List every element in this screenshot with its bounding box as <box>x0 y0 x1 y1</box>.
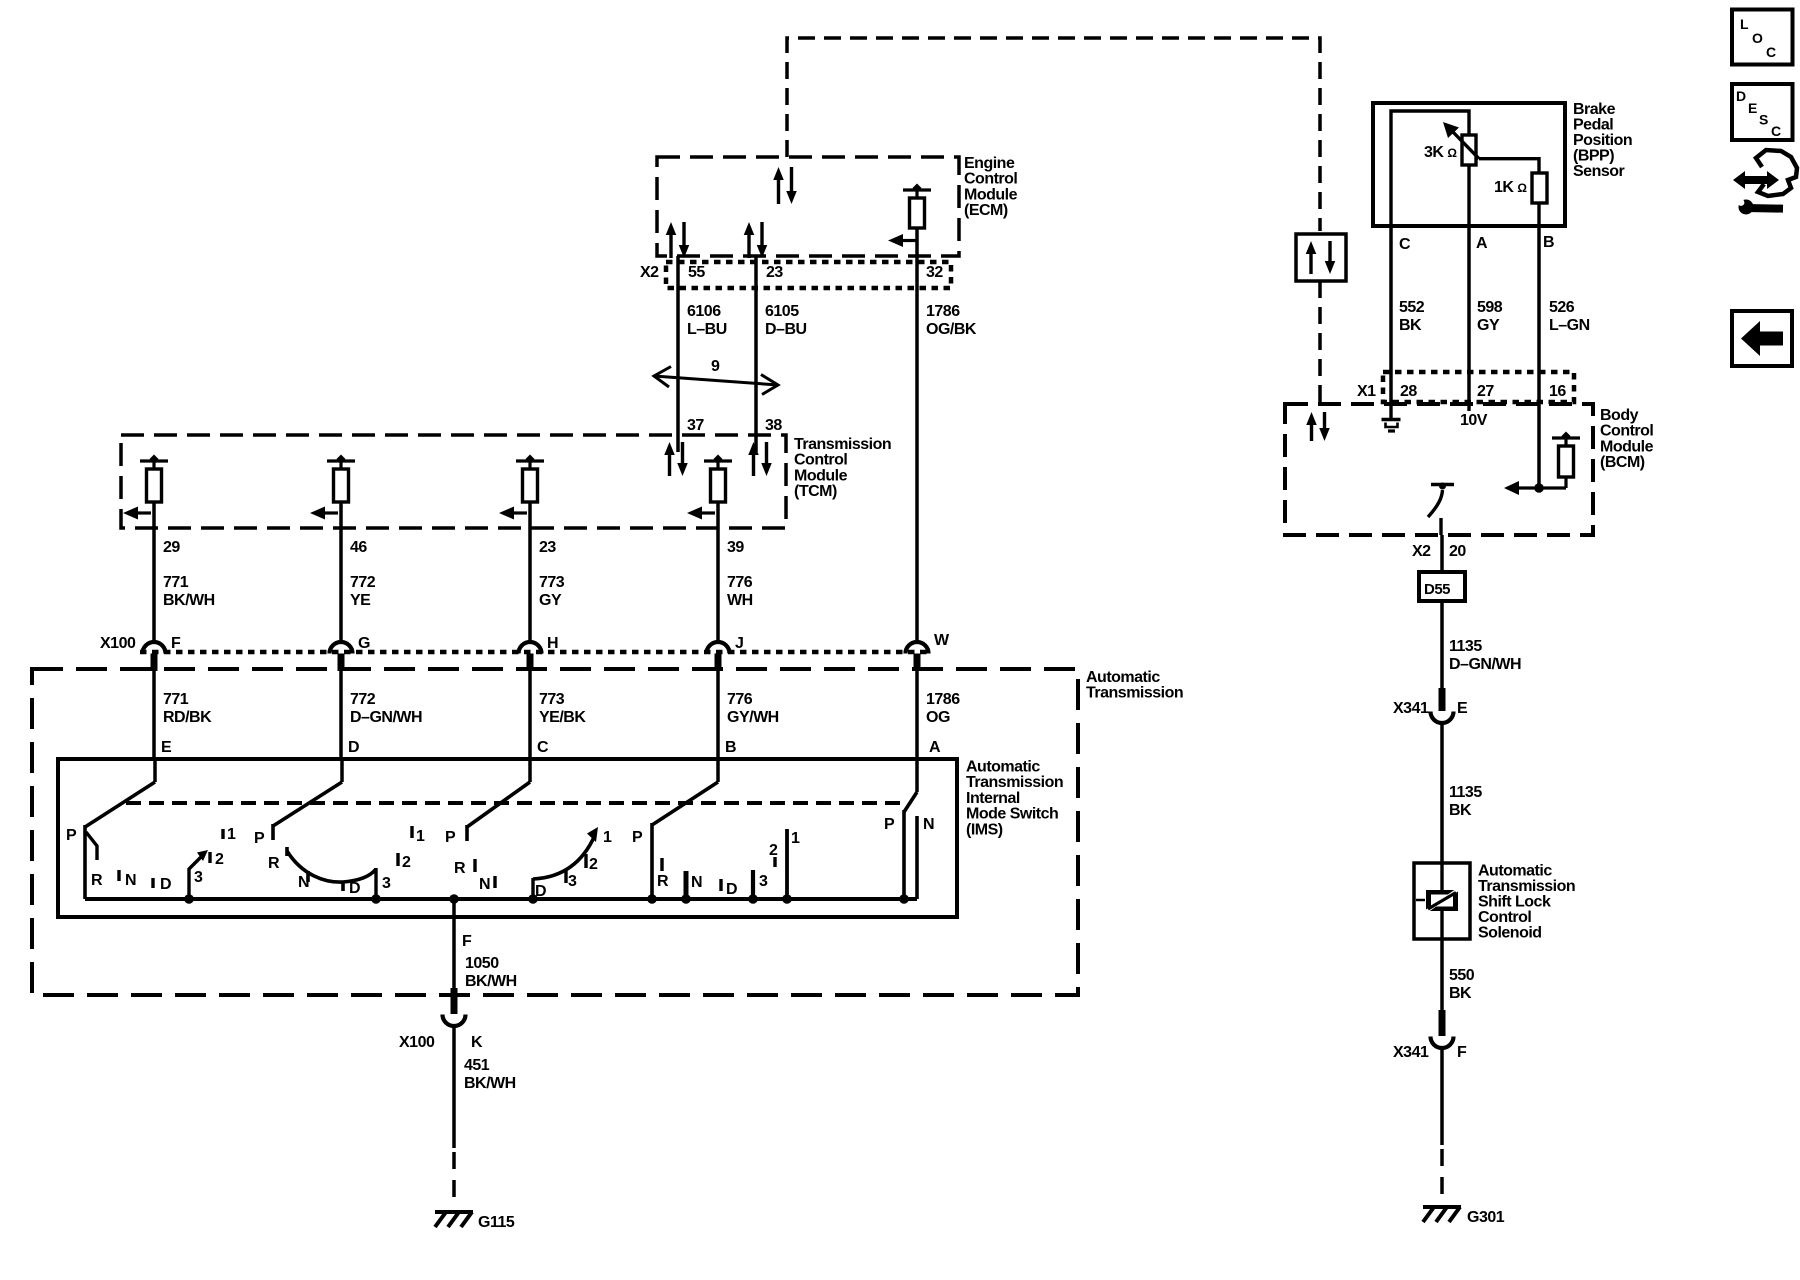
svg-text:C: C <box>1766 44 1776 60</box>
icon DESC box <box>1732 84 1793 140</box>
svg-text:X100: X100 <box>100 635 136 652</box>
junction dot at 904 <box>899 894 909 904</box>
svg-text:451: 451 <box>464 1057 490 1074</box>
wire 38 stub inside TCM <box>754 436 758 452</box>
junction dot at 787 <box>782 894 792 904</box>
svg-text:N: N <box>298 874 309 891</box>
IMS bank C wiper arc to 1 <box>531 878 534 899</box>
svg-text:(TCM): (TCM) <box>794 483 837 500</box>
svg-text:S: S <box>1759 112 1768 128</box>
arrow (signal direction) in ECM <box>888 234 903 247</box>
switch inside BCM <box>1431 483 1454 486</box>
svg-text:1: 1 <box>227 826 236 843</box>
wire circuit 6105 (pin 23 to TCM 38) <box>754 256 758 436</box>
svg-text:3: 3 <box>759 873 768 890</box>
connector X2 of ECM <box>666 262 951 288</box>
ground G115 <box>435 1210 473 1214</box>
svg-text:Internal: Internal <box>966 790 1020 807</box>
svg-text:3K Ω: 3K Ω <box>1424 144 1457 161</box>
svg-text:(BCM): (BCM) <box>1600 454 1645 471</box>
arrow and resistor inside BCM <box>1507 486 1566 489</box>
svg-text:BK: BK <box>1449 802 1472 819</box>
IMS box (Internal Mode Switch) <box>58 759 957 917</box>
wire F output from rail <box>452 899 456 990</box>
arrow (signal direction) TCM leg 29 <box>123 507 138 520</box>
TCM box (Transmission Control Module) <box>121 435 786 528</box>
svg-text:X100: X100 <box>399 1034 435 1051</box>
svg-text:3: 3 <box>382 875 391 892</box>
svg-text:1K Ω: 1K Ω <box>1494 179 1527 196</box>
IMS bank E contact 3 line <box>187 868 190 899</box>
svg-text:E: E <box>1748 100 1757 116</box>
ECM internal double arrows at dashed wire <box>773 167 784 180</box>
wire 1786 OG into IMS <box>915 671 919 760</box>
wire 552 BK <box>1389 226 1393 404</box>
BCM internal double arrows <box>1306 412 1317 425</box>
icon back-arrow box <box>1732 311 1792 366</box>
svg-text:E: E <box>161 739 172 756</box>
svg-text:BK/WH: BK/WH <box>464 1075 516 1092</box>
connector X100 terminal G <box>330 642 353 654</box>
svg-text:2: 2 <box>215 851 224 868</box>
svg-text:Control: Control <box>794 452 847 469</box>
svg-text:20: 20 <box>1449 543 1466 560</box>
svg-text:D–BU: D–BU <box>765 321 807 338</box>
svg-text:Transmission: Transmission <box>966 774 1063 791</box>
wire TCM resistor to pin 39 <box>716 502 720 528</box>
wire pin 16 to BCM node <box>1537 402 1541 488</box>
svg-text:N: N <box>479 876 490 893</box>
double-arrow box on dashed wire <box>1296 234 1346 281</box>
connector X100 terminal K <box>451 988 458 1014</box>
svg-text:L–GN: L–GN <box>1549 317 1590 334</box>
svg-text:Module: Module <box>1600 438 1654 455</box>
wire 771 RD/BK into IMS <box>152 671 156 760</box>
icon LOC box <box>1732 10 1793 65</box>
potentiometer 3K in BPP <box>1462 135 1476 165</box>
wire 1K to pin B <box>1537 203 1540 226</box>
svg-text:1786: 1786 <box>926 691 960 708</box>
svg-text:1: 1 <box>603 829 612 846</box>
junction dot at 376 <box>371 894 381 904</box>
IMS common output rail <box>85 897 917 901</box>
svg-text:Mode Switch: Mode Switch <box>966 806 1058 823</box>
wire pot to pin A <box>1467 165 1470 226</box>
junction dot at 454 <box>449 894 459 904</box>
connector X100 terminal W <box>906 642 929 654</box>
svg-text:P: P <box>254 830 265 847</box>
svg-text:Shift Lock: Shift Lock <box>1478 894 1551 911</box>
svg-text:1050: 1050 <box>465 955 499 972</box>
wire to G301 <box>1440 1048 1444 1145</box>
BPP sensor box <box>1373 103 1565 226</box>
wire circuit 776 WH <box>716 528 720 643</box>
svg-text:E: E <box>1457 700 1468 717</box>
svg-text:D–GN/WH: D–GN/WH <box>1449 656 1521 673</box>
svg-text:R: R <box>454 860 466 877</box>
svg-text:P: P <box>445 829 456 846</box>
svg-text:772: 772 <box>350 691 376 708</box>
svg-text:P: P <box>66 827 77 844</box>
svg-text:3: 3 <box>194 869 203 886</box>
svg-text:10V: 10V <box>1460 412 1488 429</box>
junction dot at 753 <box>748 894 758 904</box>
svg-text:6106: 6106 <box>687 303 721 320</box>
svg-text:1: 1 <box>791 830 800 847</box>
ECM box (Engine Control Module) <box>657 157 959 256</box>
BPP internal wiring <box>1391 111 1469 226</box>
IMS bank D contact 3 line <box>374 868 377 899</box>
svg-text:776: 776 <box>727 574 753 591</box>
wire circuit 6106 (pin 55 to TCM 37) <box>676 256 680 436</box>
svg-text:X2: X2 <box>1412 543 1431 560</box>
Automatic Transmission box <box>32 669 1078 995</box>
svg-text:Solenoid: Solenoid <box>1478 925 1542 942</box>
svg-text:1: 1 <box>416 828 425 845</box>
svg-text:A: A <box>1476 235 1488 252</box>
junction dot at 189 <box>184 894 194 904</box>
svg-text:X341: X341 <box>1393 700 1429 717</box>
wire 550 BK <box>1440 939 1444 1012</box>
svg-text:2: 2 <box>769 842 778 859</box>
crossing symbol 9 <box>654 376 778 385</box>
svg-text:X1: X1 <box>1357 383 1376 400</box>
svg-text:YE/BK: YE/BK <box>539 709 586 726</box>
svg-text:776: 776 <box>727 691 753 708</box>
svg-text:H: H <box>547 635 558 652</box>
svg-text:Control: Control <box>1478 909 1531 926</box>
junction dot at 686 <box>681 894 691 904</box>
svg-text:B: B <box>725 739 736 756</box>
svg-text:X2: X2 <box>640 264 659 281</box>
svg-text:2: 2 <box>402 854 411 871</box>
svg-text:55: 55 <box>688 264 705 281</box>
wire circuit 771 BK/WH <box>152 528 156 643</box>
svg-text:552: 552 <box>1399 299 1425 316</box>
IMS bank E wiper P <box>153 760 157 782</box>
svg-text:1786: 1786 <box>926 303 960 320</box>
IMS bank C ticks <box>473 859 476 872</box>
svg-text:46: 46 <box>350 539 367 556</box>
wire circuit 1786 OG/BK (pin 32 down to X100 W) <box>915 263 919 642</box>
svg-text:OG: OG <box>926 709 950 726</box>
svg-text:L: L <box>1740 16 1749 32</box>
wire 776 GY/WH into IMS <box>716 671 720 760</box>
svg-text:OG/BK: OG/BK <box>926 321 977 338</box>
svg-text:G301: G301 <box>1467 1209 1505 1226</box>
svg-text:GY/WH: GY/WH <box>727 709 779 726</box>
svg-text:F: F <box>462 933 472 950</box>
svg-text:23: 23 <box>766 264 783 281</box>
IMS bank A contact N line <box>915 816 919 899</box>
svg-text:Pedal: Pedal <box>1573 117 1613 134</box>
svg-text:BK/WH: BK/WH <box>465 973 517 990</box>
svg-text:(ECM): (ECM) <box>964 202 1008 219</box>
svg-text:9: 9 <box>711 358 720 375</box>
wire TCM resistor to pin 46 <box>339 502 343 528</box>
wire pin 27 stub <box>1467 402 1470 411</box>
svg-text:BK: BK <box>1449 985 1472 1002</box>
svg-text:27: 27 <box>1477 383 1494 400</box>
svg-text:R: R <box>657 873 669 890</box>
svg-text:3: 3 <box>568 873 577 890</box>
wire 526 L-GN <box>1537 226 1541 404</box>
IMS bank B contact lines <box>684 871 689 899</box>
svg-text:X341: X341 <box>1393 1044 1429 1061</box>
svg-text:Transmission: Transmission <box>1086 685 1183 702</box>
svg-text:23: 23 <box>539 539 556 556</box>
wire 598 GY <box>1467 226 1471 404</box>
svg-text:RD/BK: RD/BK <box>163 709 212 726</box>
wire 451 BK/WH <box>452 1026 456 1148</box>
wire 37 stub inside TCM <box>676 436 680 452</box>
wire 1135 BK <box>1440 723 1444 863</box>
svg-text:N: N <box>691 874 702 891</box>
IMS bank E ticks <box>117 870 120 881</box>
svg-text:B: B <box>1543 234 1554 251</box>
connector X341 terminal E <box>1439 688 1446 711</box>
svg-text:Control: Control <box>1600 423 1653 440</box>
IMS bank A wiper P <box>915 760 919 792</box>
svg-text:598: 598 <box>1477 299 1503 316</box>
wire TCM resistor to pin 29 <box>152 502 156 528</box>
wire pot wiper to 1K <box>1479 159 1539 173</box>
connector X100 terminal H <box>519 642 542 654</box>
svg-text:A: A <box>929 739 941 756</box>
shift lock solenoid box <box>1414 863 1470 939</box>
svg-text:773: 773 <box>539 691 565 708</box>
IMS bank B wiper P <box>716 760 720 782</box>
TCM internal double arrows at 38 <box>748 442 759 455</box>
svg-text:Body: Body <box>1600 407 1639 424</box>
wire 773 YE/BK into IMS <box>528 671 532 760</box>
IMS bank E P-R arc <box>86 832 97 860</box>
svg-text:D: D <box>726 881 737 898</box>
svg-text:F: F <box>171 635 181 652</box>
wire 772 D&#8211;GN/WH into IMS <box>339 671 343 760</box>
junction dot at 652 <box>647 894 657 904</box>
svg-text:YE: YE <box>350 592 371 609</box>
svg-text:D: D <box>535 883 546 900</box>
splice D55 <box>1419 572 1465 601</box>
svg-text:P: P <box>884 816 895 833</box>
svg-text:771: 771 <box>163 691 189 708</box>
svg-text:K: K <box>471 1034 483 1051</box>
svg-text:D55: D55 <box>1424 581 1450 598</box>
svg-text:R: R <box>91 872 103 889</box>
resistor in TCM leg 39 <box>714 455 723 464</box>
icon data-link connector with wrench <box>1733 171 1779 189</box>
IMS bank B ticks <box>660 858 663 871</box>
ECM internal double arrows above pin 55 <box>666 222 677 235</box>
svg-text:D: D <box>349 880 360 897</box>
svg-text:Module: Module <box>964 186 1018 203</box>
svg-text:16: 16 <box>1549 383 1566 400</box>
svg-text:Automatic: Automatic <box>1086 669 1160 686</box>
arrow (signal direction) TCM leg 39 <box>687 507 702 520</box>
svg-text:D: D <box>348 739 359 756</box>
svg-text:L–BU: L–BU <box>687 321 727 338</box>
svg-text:BK: BK <box>1399 317 1422 334</box>
svg-text:37: 37 <box>687 417 704 434</box>
connector X100 terminal J <box>707 642 730 654</box>
svg-text:29: 29 <box>163 539 180 556</box>
connector X1 of BCM <box>1383 372 1574 402</box>
wire BCM X2-20 to D55 <box>1440 535 1444 572</box>
connector X341 terminal F <box>1439 1010 1446 1036</box>
connector X100 terminal F <box>143 642 166 654</box>
svg-text:N: N <box>125 872 136 889</box>
svg-text:Brake: Brake <box>1573 101 1616 118</box>
wire ECM resistor to pin 32 <box>915 228 919 263</box>
svg-text:39: 39 <box>727 539 744 556</box>
ground symbol inside BCM (pin 28) <box>1389 402 1392 418</box>
IMS bank C wiper P <box>528 760 532 782</box>
svg-text:Transmission: Transmission <box>794 436 891 453</box>
svg-text:Module: Module <box>794 467 848 484</box>
svg-text:Automatic: Automatic <box>966 759 1040 776</box>
svg-text:32: 32 <box>926 264 943 281</box>
svg-text:773: 773 <box>539 574 565 591</box>
svg-text:2: 2 <box>589 856 598 873</box>
svg-text:O: O <box>1752 30 1763 46</box>
svg-text:771: 771 <box>163 574 189 591</box>
arrow (signal direction) TCM leg 46 <box>310 507 325 520</box>
ECM internal double arrows above pin 23 <box>744 222 755 235</box>
svg-text:(BPP): (BPP) <box>1573 148 1614 165</box>
svg-text:28: 28 <box>1400 383 1417 400</box>
svg-text:WH: WH <box>727 592 753 609</box>
svg-text:W: W <box>934 632 950 649</box>
solenoid symbol <box>1440 863 1443 890</box>
svg-text:Position: Position <box>1573 132 1632 149</box>
IMS bank D arc R-N-D-3 <box>287 851 376 882</box>
ground G301 <box>1423 1205 1461 1209</box>
TCM internal double arrows at 37 <box>664 442 675 455</box>
resistor in TCM leg 46 <box>337 455 346 464</box>
svg-text:P: P <box>632 829 643 846</box>
svg-text:GY: GY <box>539 592 562 609</box>
junction dot at 533 <box>528 894 538 904</box>
svg-text:N: N <box>923 816 934 833</box>
dashed wire from ECM to BCM (hidden circuit) <box>787 38 1320 231</box>
svg-text:C: C <box>1399 236 1411 253</box>
resistor 1K in BPP <box>1532 173 1547 203</box>
svg-text:G: G <box>358 635 370 652</box>
svg-text:BK/WH: BK/WH <box>163 592 215 609</box>
connector X100 line <box>140 650 930 655</box>
svg-text:D–GN/WH: D–GN/WH <box>350 709 422 726</box>
svg-text:526: 526 <box>1549 299 1575 316</box>
svg-text:F: F <box>1457 1044 1467 1061</box>
svg-text:1135: 1135 <box>1449 638 1482 655</box>
svg-text:6105: 6105 <box>765 303 799 320</box>
svg-text:C: C <box>537 739 549 756</box>
svg-text:(IMS): (IMS) <box>966 821 1003 838</box>
svg-text:Transmission: Transmission <box>1478 878 1575 895</box>
junction dot BCM <box>1534 483 1544 493</box>
wire circuit 773 GY <box>528 528 532 643</box>
svg-text:J: J <box>735 635 743 652</box>
resistor in ECM on circuit 1786 <box>913 184 922 193</box>
wire circuit 772 YE <box>339 528 343 643</box>
svg-text:Control: Control <box>964 171 1017 188</box>
svg-text:D: D <box>1736 88 1746 104</box>
svg-text:550: 550 <box>1449 967 1475 984</box>
wire 1135 D-GN/WH <box>1440 601 1444 692</box>
svg-text:38: 38 <box>765 417 782 434</box>
svg-text:Engine: Engine <box>964 155 1015 172</box>
wire TCM resistor to pin 23 <box>528 502 532 528</box>
svg-text:772: 772 <box>350 574 376 591</box>
svg-text:GY: GY <box>1477 317 1500 334</box>
resistor in TCM leg 29 <box>150 455 159 464</box>
svg-text:D: D <box>160 876 171 893</box>
svg-text:Automatic: Automatic <box>1478 863 1552 880</box>
IMS internal dashed line <box>126 801 900 805</box>
IMS bank D ticks <box>285 847 289 856</box>
BCM box (Body Control Module) <box>1285 404 1593 535</box>
arrow (signal direction) TCM leg 23 <box>499 507 514 520</box>
svg-text:C: C <box>1771 123 1781 139</box>
IMS bank D wiper P <box>340 760 344 782</box>
svg-text:Sensor: Sensor <box>1573 163 1625 180</box>
svg-text:G115: G115 <box>478 1214 515 1231</box>
svg-text:1135: 1135 <box>1449 784 1482 801</box>
svg-text:R: R <box>268 855 280 872</box>
resistor in TCM leg 23 <box>526 455 535 464</box>
